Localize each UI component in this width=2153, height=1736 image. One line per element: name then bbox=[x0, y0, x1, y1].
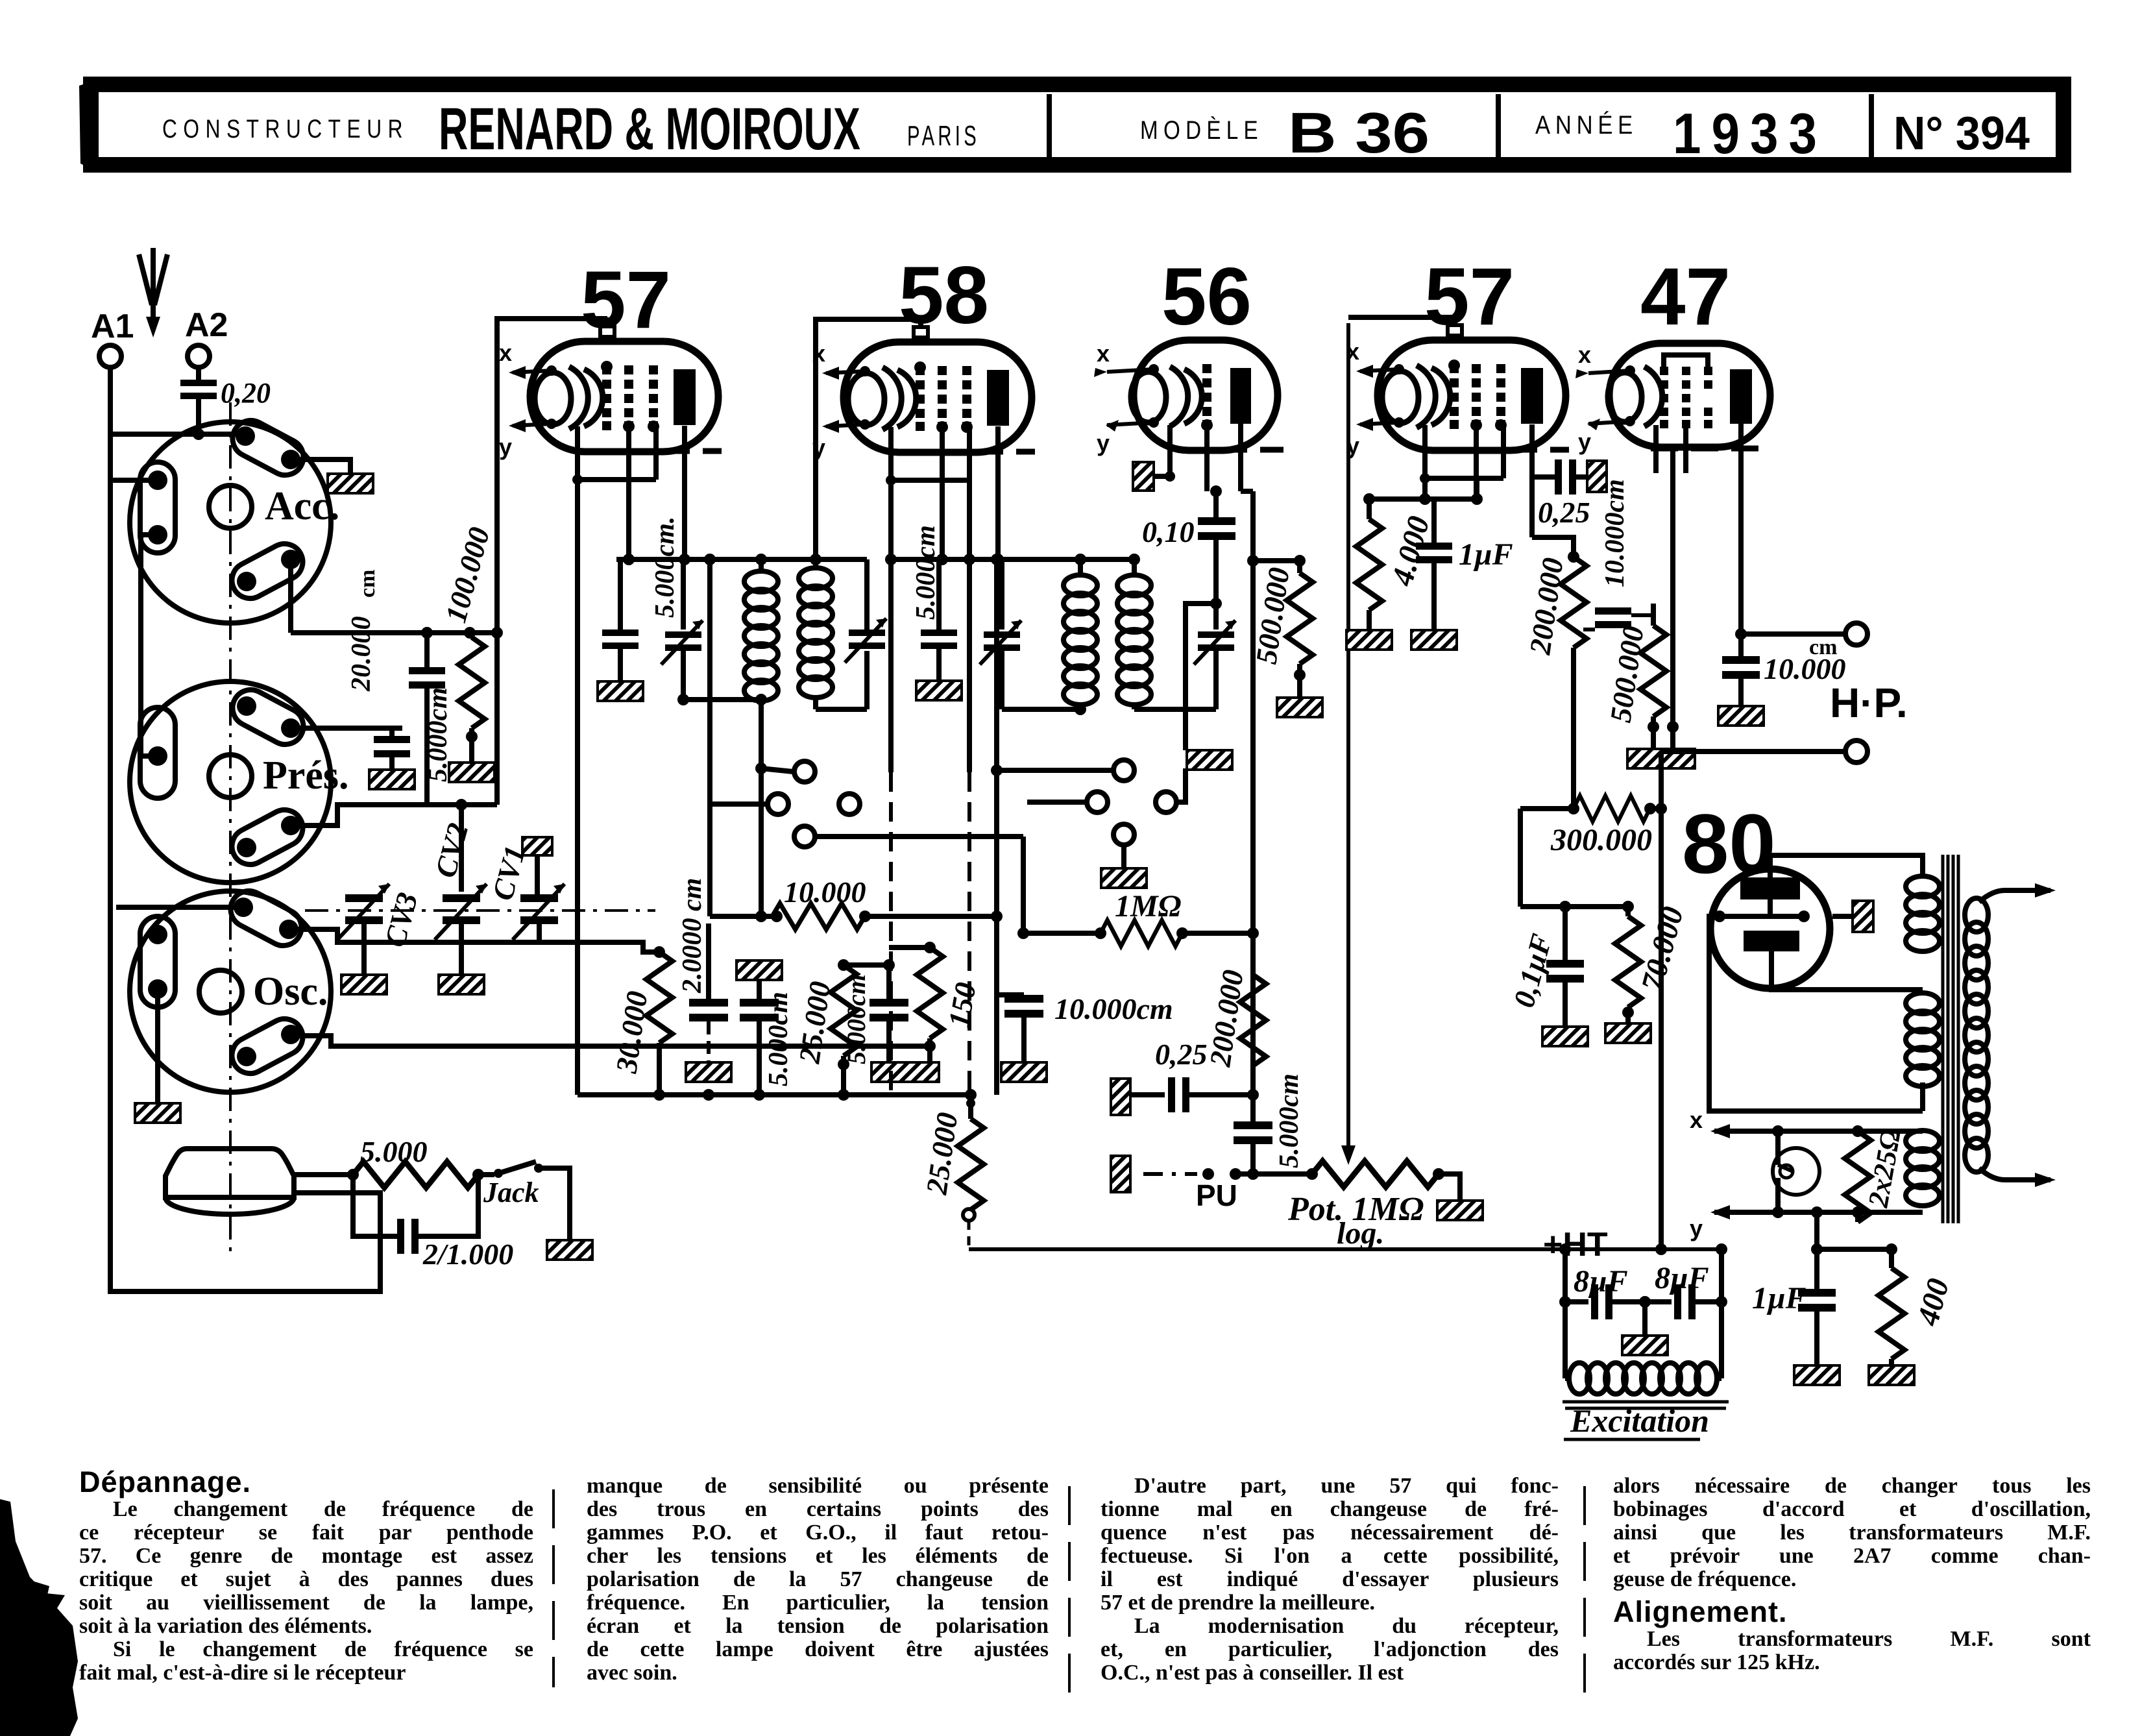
pilot lamp bbox=[1773, 1131, 1819, 1212]
capacitor 2.0000cm bbox=[677, 878, 728, 1062]
wire 56 plate down bbox=[1241, 491, 1253, 1095]
wire IF bus y862 bbox=[616, 557, 867, 562]
svg-text:20.000: 20.000 bbox=[347, 617, 376, 692]
ink blot bottom left bbox=[0, 1499, 78, 1736]
svg-text:56: 56 bbox=[1162, 252, 1252, 342]
svg-text:0,1µF: 0,1µF bbox=[1507, 931, 1558, 1011]
resistor 70.000 bbox=[1565, 901, 1690, 1023]
capacitor 0,1uF bbox=[1507, 907, 1584, 1027]
wire 57a grid top cap rail bbox=[497, 319, 607, 805]
resistor 30.000 bbox=[609, 946, 672, 1101]
ground bbox=[916, 681, 962, 700]
svg-text:400: 400 bbox=[1910, 1275, 1956, 1330]
svg-text:500.000: 500.000 bbox=[1603, 624, 1649, 724]
ground left of 56 bbox=[1133, 462, 1175, 491]
wire tuning line to CV2 bbox=[459, 805, 464, 892]
wire Pres top-right to padder bbox=[291, 726, 402, 731]
band switch contacts group2 bbox=[991, 760, 1186, 868]
wire 57b grid top cap to wiper bbox=[1348, 315, 1455, 320]
variable capacitor CV1 bbox=[485, 842, 565, 942]
svg-text:0,25: 0,25 bbox=[1538, 496, 1590, 529]
svg-text:x: x bbox=[1097, 340, 1110, 367]
wire 0,10 to IF2 secondary bbox=[1186, 604, 1216, 709]
resistor 150 bbox=[838, 942, 982, 1062]
svg-text:log.: log. bbox=[1337, 1216, 1384, 1251]
capacitor 5.000cm right bbox=[842, 965, 908, 1064]
ground under Osc bbox=[135, 1103, 180, 1123]
wire heater mid down bbox=[1811, 1206, 1897, 1255]
capacitor 10.000cm small bbox=[1574, 479, 1631, 630]
wide ground under 150 bbox=[871, 1062, 939, 1082]
wire Osc top-left to rail bbox=[116, 905, 243, 910]
svg-text:A1: A1 bbox=[91, 308, 134, 345]
ground under switch2 bbox=[1101, 868, 1147, 888]
hatch block transformer top bbox=[1832, 901, 1873, 932]
excitation field coil bbox=[1563, 1243, 1729, 1439]
capacitor 0,20 bbox=[180, 377, 271, 409]
ground under 100.000 bbox=[449, 763, 494, 782]
secondary output bottom arrow bbox=[1979, 1168, 2056, 1187]
dashed wire to PU bbox=[1143, 1172, 1197, 1176]
ground under jack bbox=[547, 1240, 592, 1260]
text column dividers bbox=[553, 1486, 1585, 1704]
svg-text:+HT: +HT bbox=[1543, 1226, 1608, 1264]
svg-text:CONSTRUCTEUR: CONSTRUCTEUR bbox=[162, 115, 409, 143]
wire capacitor to junction bbox=[196, 399, 201, 434]
band switch contacts group1 bbox=[755, 761, 1023, 933]
svg-text:RENARD & MOIROUX: RENARD & MOIROUX bbox=[439, 96, 860, 162]
transformer primary top coil bbox=[1906, 874, 1940, 951]
resistor 25.000 bbox=[792, 965, 857, 1095]
svg-text:y: y bbox=[1578, 428, 1591, 455]
axis dash-dot line through CV gang bbox=[305, 909, 655, 912]
ground under 2.0000 bbox=[686, 1062, 731, 1082]
wire Acc left dots to rails bbox=[110, 478, 158, 483]
wire rail x217 bbox=[141, 535, 158, 756]
wire left rail A1 bbox=[110, 434, 380, 1291]
wire 57a anode down bbox=[682, 500, 687, 559]
wire Pres bottom to tuning line bbox=[291, 805, 497, 825]
node A1 bbox=[91, 308, 134, 367]
node A2 bbox=[185, 306, 228, 367]
svg-text:2/1.000: 2/1.000 bbox=[422, 1238, 513, 1271]
svg-text:x: x bbox=[1578, 341, 1591, 368]
trimmer on IF2 primary bbox=[980, 559, 1021, 709]
wire 57a screen down bbox=[626, 500, 631, 559]
resistor 1 Mohm bbox=[1017, 889, 1259, 946]
svg-text:5.000: 5.000 bbox=[360, 1135, 428, 1168]
tube 57 second bbox=[1346, 252, 1569, 499]
wire 57a cathode down bbox=[575, 480, 580, 1095]
capacitor 10.000cm mid bbox=[997, 923, 1173, 1062]
wire 80 left down bbox=[1709, 916, 1923, 1111]
ground under pot bbox=[1437, 1201, 1483, 1220]
ground for Acc bbox=[328, 474, 373, 493]
svg-text:2.0000 cm: 2.0000 cm bbox=[677, 878, 707, 994]
ground under 1uF right bbox=[1794, 1365, 1840, 1385]
svg-text:200.000: 200.000 bbox=[1523, 556, 1569, 657]
svg-text:A2: A2 bbox=[185, 306, 228, 344]
resistor 25.000 lower bbox=[919, 1095, 984, 1249]
resistor 100.000 bbox=[439, 524, 496, 763]
wire vertical x1094 bbox=[704, 554, 768, 916]
transformer heater coil bbox=[1906, 1131, 1940, 1206]
trimmer under 56 bbox=[1186, 604, 1235, 709]
svg-text:5.000cm: 5.000cm bbox=[911, 525, 941, 620]
wire Osc top-right long bbox=[289, 929, 659, 952]
capacitor 20.000cm bbox=[291, 570, 410, 770]
bottom bus y1687 bbox=[578, 1089, 977, 1101]
tube 58 bbox=[812, 251, 1035, 501]
capacitor 5.000cm mid bbox=[736, 960, 794, 1095]
svg-text:1µF: 1µF bbox=[1752, 1281, 1806, 1315]
wire 80 plate top to transformer bbox=[1770, 855, 1923, 877]
resistor 300.000 bbox=[1550, 796, 1661, 857]
socket Pres. bbox=[130, 681, 349, 883]
heater x arrow bbox=[1690, 1106, 1864, 1138]
wire knob to resistor bbox=[294, 1172, 353, 1177]
capacitor 5.000cm under 58 bbox=[911, 525, 957, 681]
terminal HP bottom bbox=[1845, 740, 1867, 763]
svg-text:y: y bbox=[1690, 1215, 1703, 1241]
svg-text:5.000cm.: 5.000cm. bbox=[650, 517, 680, 618]
svg-text:PARIS: PARIS bbox=[907, 120, 980, 152]
resistor 500.000 bbox=[1247, 555, 1313, 698]
transformer secondary coil bbox=[1965, 898, 1988, 1172]
bottom rail y1925 bbox=[969, 1243, 1721, 1255]
svg-text:10.000cm: 10.000cm bbox=[1600, 479, 1630, 587]
svg-text:150: 150 bbox=[942, 980, 982, 1030]
svg-text:300.000: 300.000 bbox=[1550, 823, 1652, 857]
hatch block left of PU bbox=[1111, 1156, 1130, 1192]
wire A2 to capacitor bbox=[196, 367, 201, 380]
wire A1 to junction bbox=[110, 432, 245, 437]
resistor 500.000 right bbox=[1603, 604, 1666, 749]
tube 56 bbox=[1094, 252, 1283, 491]
IF1 primary coil bbox=[677, 554, 778, 768]
transformer primary mid coil bbox=[1906, 993, 1940, 1086]
svg-text:0,25: 0,25 bbox=[1155, 1038, 1208, 1071]
wire 58 anode down long bbox=[991, 554, 1003, 1095]
variable capacitor CV2 bbox=[428, 820, 487, 975]
svg-text:30.000: 30.000 bbox=[609, 989, 653, 1075]
tube 47 bbox=[1575, 252, 1770, 486]
wire 1536 vertical bbox=[997, 916, 1024, 995]
ground under 400 bbox=[1869, 1365, 1914, 1385]
wire 58 grid top cap to IF1 secondary bbox=[816, 319, 921, 559]
svg-text:1MΩ: 1MΩ bbox=[1115, 889, 1182, 923]
trimmer on IF1 secondary bbox=[810, 554, 886, 663]
wire 47 anode down bbox=[1735, 486, 1845, 640]
capacitor 5.000cm left bbox=[409, 633, 453, 805]
wire 58 suppressor long drop bbox=[964, 480, 975, 1095]
svg-text:Excitation: Excitation bbox=[1570, 1402, 1709, 1439]
ground under 10.000cm HP bbox=[1718, 706, 1764, 726]
svg-text:Osc.: Osc. bbox=[253, 970, 328, 1014]
capacitor 0,10 bbox=[1142, 515, 1235, 609]
capacitor 0,25 anode bbox=[1532, 450, 1607, 529]
wire Osc cathode long to 150 bbox=[291, 1036, 930, 1046]
wire 47 screen down bbox=[1667, 448, 1679, 749]
bus B under 58 bbox=[891, 557, 1137, 562]
header frame bbox=[79, 82, 2063, 169]
heater y arrow bbox=[1690, 1205, 1864, 1241]
svg-text:y: y bbox=[1097, 430, 1110, 456]
svg-text:70.000: 70.000 bbox=[1635, 903, 1690, 995]
wire HP bottom bbox=[1661, 749, 1845, 754]
svg-text:0,20: 0,20 bbox=[221, 377, 271, 409]
ground under 0,1uF bbox=[1542, 1027, 1588, 1046]
svg-text:80: 80 bbox=[1682, 796, 1776, 891]
resistor 2x25 ohm bbox=[1845, 1127, 1923, 1222]
svg-text:Prés.: Prés. bbox=[263, 753, 349, 798]
wire 56 grid down bbox=[1207, 476, 1222, 517]
ground under 5.000cm bbox=[598, 681, 643, 701]
wire 58 screen down bbox=[936, 501, 948, 565]
svg-text:B 36: B 36 bbox=[1288, 101, 1429, 165]
capacitor 5.000cm pot bbox=[1234, 1073, 1304, 1174]
capacitor 1uF right bbox=[1752, 1249, 1836, 1365]
axis dash-dot line through sockets bbox=[229, 402, 232, 1253]
trimmer on IF1 primary bbox=[661, 559, 703, 700]
wire 80 plate bottom to transformer bbox=[1770, 951, 1784, 999]
capacitor 10.000cm HP bbox=[1722, 634, 1846, 706]
tube 57 first bbox=[499, 255, 722, 500]
svg-text:57: 57 bbox=[581, 255, 671, 345]
wire 1173 down to resistor 10.000 bbox=[759, 768, 764, 916]
resistor 4.000 bbox=[1356, 499, 1437, 630]
svg-text:CV2: CV2 bbox=[428, 820, 474, 881]
svg-text:10.000cm: 10.000cm bbox=[1054, 992, 1173, 1025]
wire Osc left pin to ground bbox=[155, 989, 160, 1103]
ground under 500.000 right bbox=[1627, 749, 1695, 768]
svg-text:47: 47 bbox=[1640, 252, 1731, 342]
svg-text:N° 394: N° 394 bbox=[1893, 108, 2030, 160]
wire HT riser bbox=[1655, 752, 1667, 1249]
ground under 500.000 bbox=[1277, 698, 1322, 717]
svg-text:0,10: 0,10 bbox=[1142, 515, 1195, 548]
svg-text:8µF: 8µF bbox=[1574, 1264, 1628, 1299]
svg-text:MODÈLE: MODÈLE bbox=[1140, 116, 1263, 145]
socket Acc. bbox=[130, 414, 339, 623]
resistor 200.000 right bbox=[1523, 477, 1587, 809]
svg-text:10.000: 10.000 bbox=[784, 875, 866, 909]
svg-text:8µF: 8µF bbox=[1655, 1261, 1709, 1295]
svg-text:25.000: 25.000 bbox=[792, 979, 836, 1066]
node PU bbox=[1196, 1168, 1259, 1212]
wire antenna bus y975 bbox=[291, 627, 503, 639]
capacitor 0,25 mid bbox=[1130, 1038, 1259, 1112]
svg-text:57: 57 bbox=[1424, 252, 1514, 342]
node junction under 0,20 bbox=[193, 428, 204, 440]
capacitor 2/1.000 bbox=[353, 1175, 513, 1271]
switch jack bbox=[478, 1162, 570, 1240]
wire 57b screen bypass riser bbox=[1520, 809, 1574, 912]
svg-text:cm: cm bbox=[1809, 635, 1837, 659]
svg-text:500.000: 500.000 bbox=[1249, 565, 1295, 666]
svg-text:5.000cm: 5.000cm bbox=[764, 992, 794, 1086]
wire A1 down bbox=[108, 367, 113, 434]
drive knob / speaker cup bbox=[165, 1149, 294, 1197]
svg-text:5.000cm: 5.000cm bbox=[1274, 1073, 1304, 1168]
ground under CV3 bbox=[341, 975, 387, 994]
resistor 400 bbox=[1879, 1249, 1956, 1365]
hatch block left of 0,25 bbox=[1111, 1079, 1130, 1115]
svg-text:Jack: Jack bbox=[483, 1177, 539, 1208]
resistor 200.000 mid bbox=[1203, 933, 1266, 1095]
svg-text:4.000: 4.000 bbox=[1385, 513, 1436, 590]
filter block 8uF caps bbox=[1559, 1243, 1727, 1378]
svg-text:H·P.: H·P. bbox=[1830, 679, 1908, 726]
ground under 70.000 bbox=[1605, 1023, 1651, 1043]
socket Osc. bbox=[130, 885, 331, 1092]
IF1 secondary coil bbox=[799, 559, 867, 709]
svg-text:5.000cm: 5.000cm bbox=[842, 974, 871, 1064]
ground under CV2 bbox=[439, 975, 484, 994]
capacitor 1uF cathode bbox=[1416, 499, 1513, 630]
transformer core bbox=[1943, 855, 1958, 1223]
resistor 5.000 bbox=[347, 1135, 484, 1188]
chassis block above CV1 bbox=[522, 837, 552, 894]
IF2 secondary coil bbox=[1117, 554, 1186, 750]
IF2 primary coil bbox=[1002, 554, 1097, 715]
wire 58 cathode down bbox=[885, 480, 897, 1095]
svg-text:200.000: 200.000 bbox=[1203, 968, 1249, 1069]
svg-text:PU: PU bbox=[1196, 1179, 1237, 1212]
wire 58 anode down bbox=[992, 501, 1004, 565]
ground right of coil4 bbox=[1187, 750, 1232, 770]
resistor 10.000 bbox=[710, 875, 1003, 929]
svg-text:cm: cm bbox=[356, 570, 380, 598]
ground under 20.000 bbox=[369, 770, 415, 789]
svg-text:1µF: 1µF bbox=[1459, 537, 1513, 572]
ground under filter bbox=[1622, 1336, 1668, 1355]
wire Acc slot down to bus bbox=[288, 559, 293, 633]
variable capacitor CV3 bbox=[337, 884, 424, 975]
potentiometer Pot 1 Mohm log bbox=[1253, 1161, 1460, 1251]
svg-text:x: x bbox=[1690, 1106, 1703, 1133]
wire Acc top slot to ground bbox=[291, 459, 350, 474]
tube 80 bbox=[1682, 796, 1830, 988]
svg-text:ANNÉE: ANNÉE bbox=[1535, 110, 1638, 140]
wiper arrow from 57b grid bbox=[1341, 323, 1356, 1165]
wire 57b cathode junction bbox=[1363, 478, 1483, 505]
svg-text:100.000: 100.000 bbox=[439, 524, 496, 626]
svg-text:1933: 1933 bbox=[1673, 101, 1827, 165]
terminal HP top bbox=[1845, 623, 1867, 645]
capacitor 5.000cm under 57a bbox=[602, 517, 680, 681]
antenna symbol bbox=[139, 248, 167, 337]
secondary output top arrow bbox=[1979, 883, 2056, 902]
